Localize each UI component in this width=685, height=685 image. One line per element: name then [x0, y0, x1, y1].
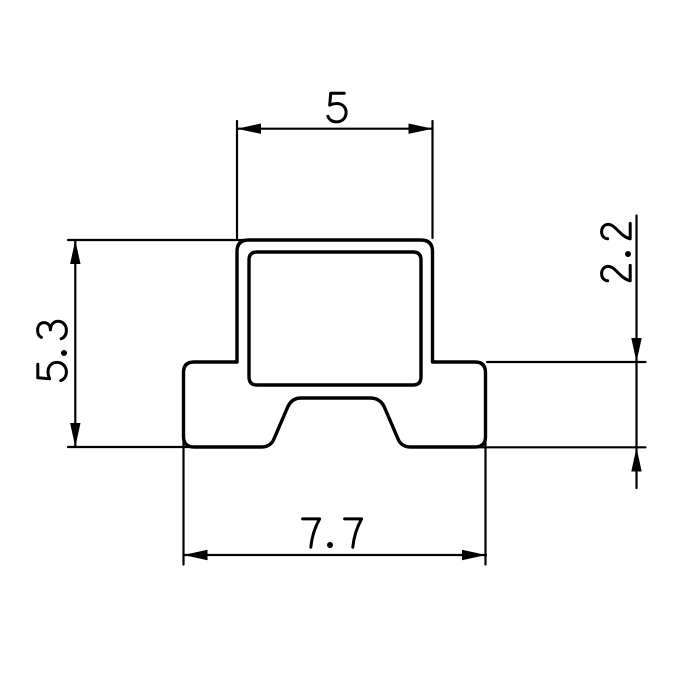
dim 5: extension line left [236, 121, 238, 238]
dim 2.2: text "2.2" [602, 223, 631, 280]
dim 7.7: dimension line [184, 554, 487, 556]
dim 7.7: arrow left [184, 550, 208, 560]
profile outer boundary [184, 240, 486, 447]
dim 2.2: extension line top [487, 361, 646, 363]
dim 7.7: arrow right [462, 550, 486, 560]
dim 5: dimension line [237, 128, 433, 130]
dim 2.2: arrow lower (points up) [631, 448, 641, 472]
dim 5: arrow left [237, 124, 261, 134]
dim 5: extension line right [431, 121, 433, 238]
profile inner cavity [249, 252, 421, 385]
dim 5.3: extension line bottom [68, 446, 200, 448]
dim 2.2: dimension line [635, 216, 637, 489]
dim 7.7: text "7.7" [303, 519, 362, 548]
dim 5: text "5" [328, 93, 346, 122]
dim 7.7: extension line left [182, 430, 184, 565]
dim 2.2: arrow upper (points down) [631, 338, 641, 362]
dim 5: arrow right [409, 124, 433, 134]
dim 5.3: arrow bottom [70, 423, 80, 447]
dim 5.3: text "5.3" [38, 321, 67, 380]
dim 5.3: arrow top [70, 240, 80, 264]
dim 7.7: extension line right [484, 430, 486, 565]
dim 5.3: extension line top [68, 239, 248, 241]
dim 5.3: dimension line [74, 240, 76, 447]
dim 2.2: extension line bottom [473, 446, 646, 448]
